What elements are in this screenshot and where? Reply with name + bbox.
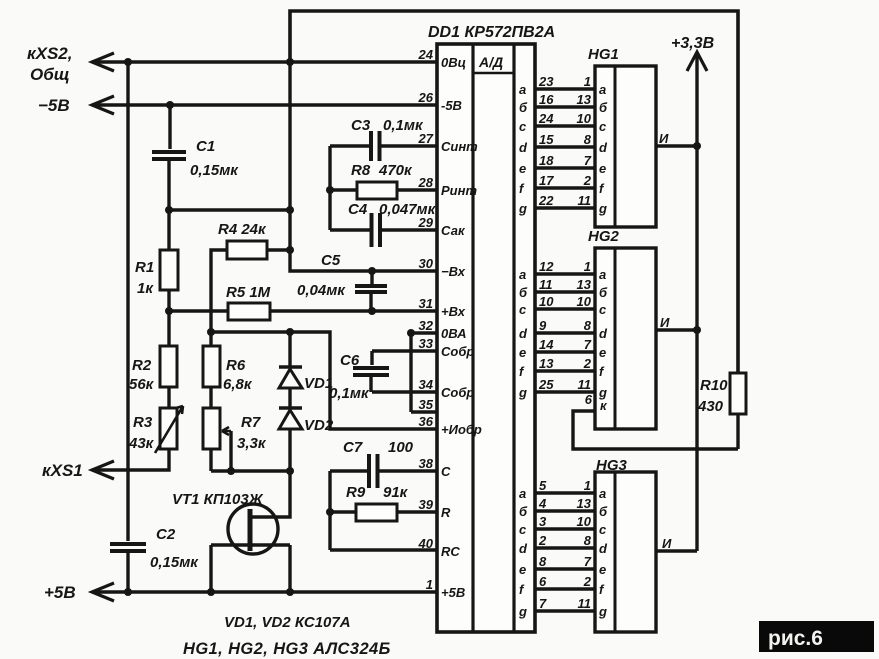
junction source right/+5В xyxy=(286,588,294,596)
svg-text:1: 1 xyxy=(584,74,591,89)
label рис.6 box xyxy=(759,621,874,652)
wire DD1 inner divider 1 xyxy=(471,44,474,632)
svg-text:9: 9 xyxy=(539,318,547,333)
svg-text:e: e xyxy=(519,161,526,176)
svg-text:Собр: Собр xyxy=(441,385,474,400)
wire R1 top lead xyxy=(167,210,170,250)
svg-text:НG2: НG2 xyxy=(588,228,620,245)
wire R line39 left xyxy=(330,510,356,513)
svg-text:d: d xyxy=(519,140,528,155)
svg-text:б: б xyxy=(599,504,608,519)
svg-text:VT1 КП103Ж: VT1 КП103Ж xyxy=(172,491,264,508)
svg-text:13: 13 xyxy=(577,277,592,292)
svg-text:31: 31 xyxy=(419,296,433,311)
svg-text:a: a xyxy=(599,486,606,501)
svg-text:2: 2 xyxy=(583,173,592,188)
wire segment c DD1 to HG3 xyxy=(535,527,595,530)
wire VT1 source rail xyxy=(211,543,290,546)
svg-text:g: g xyxy=(598,201,607,216)
svg-text:НG1: НG1 xyxy=(588,46,619,63)
svg-text:И: И xyxy=(659,131,669,146)
wire C2 to +5В line xyxy=(126,553,129,592)
resistor R4 xyxy=(227,241,267,259)
svg-text:e: e xyxy=(599,562,606,577)
svg-text:e: e xyxy=(599,345,606,360)
resistor R10 xyxy=(730,373,746,414)
wire R3 to кXS1 xyxy=(92,449,169,470)
svg-text:a: a xyxy=(599,267,606,282)
svg-text:g: g xyxy=(598,604,607,619)
svg-text:−Вх: −Вх xyxy=(441,264,466,279)
svg-text:6: 6 xyxy=(539,574,547,589)
svg-text:А/Д: А/Д xyxy=(478,54,503,70)
resistor R1 xyxy=(160,250,178,290)
wire R7 bottom lead xyxy=(209,449,212,471)
wire R6 to R7 xyxy=(209,387,212,408)
svg-text:8: 8 xyxy=(584,132,592,147)
diode VD2 xyxy=(279,408,302,429)
svg-text:5: 5 xyxy=(539,478,547,493)
svg-text:3: 3 xyxy=(539,514,547,529)
svg-text:18: 18 xyxy=(539,153,554,168)
wire segment c DD1 to HG2 xyxy=(535,307,595,310)
svg-text:0Вц: 0Вц xyxy=(441,55,466,70)
svg-text:g: g xyxy=(518,385,527,400)
wire ref node to R6 xyxy=(209,332,212,346)
svg-text:36: 36 xyxy=(419,414,434,429)
resistor R2 xyxy=(160,346,177,387)
wire segment a DD1 to HG2 xyxy=(535,272,595,275)
wire HG2 И to +3,3В rail xyxy=(656,328,697,331)
resistor R9 xyxy=(356,504,397,521)
wire segment d DD1 to HG1 xyxy=(535,145,595,148)
svg-text:c: c xyxy=(599,119,607,134)
junction stub/Общ vertical xyxy=(286,206,294,214)
wire Сак line29 left xyxy=(330,228,370,231)
wire C5 bottom lead xyxy=(369,294,372,311)
svg-text:a: a xyxy=(599,82,606,97)
svg-text:10: 10 xyxy=(577,294,592,309)
wire Синт line27 left xyxy=(330,144,369,147)
svg-text:DD1 КР572ПВ2А: DD1 КР572ПВ2А xyxy=(428,24,555,41)
svg-text:23: 23 xyxy=(538,74,554,89)
svg-text:С2: С2 xyxy=(156,526,176,543)
svg-text:26: 26 xyxy=(418,90,434,105)
junction R9 left xyxy=(326,508,334,516)
wire source rail left drop xyxy=(209,545,212,592)
svg-text:0ВА: 0ВА xyxy=(441,326,467,341)
svg-text:11: 11 xyxy=(578,377,592,392)
wire R1 bottom to node xyxy=(167,290,170,346)
svg-text:11: 11 xyxy=(578,193,592,208)
resistor R6 xyxy=(203,346,220,387)
wire segment c DD1 to HG1 xyxy=(535,124,595,127)
svg-text:Общ: Общ xyxy=(30,65,70,84)
svg-text:29: 29 xyxy=(418,215,434,230)
svg-text:g: g xyxy=(518,604,527,619)
wire Общ top frame to R10 top xyxy=(290,11,738,373)
node кXS1 arrow xyxy=(92,461,114,479)
wire VD1 to VD2 xyxy=(288,388,291,407)
svg-text:34: 34 xyxy=(419,377,434,392)
svg-text:4: 4 xyxy=(538,496,547,511)
svg-text:d: d xyxy=(519,326,528,341)
svg-text:−5В: −5В xyxy=(38,96,70,115)
wire R10 bottom lead xyxy=(736,414,739,449)
wire HG3 inner divider xyxy=(614,472,617,632)
capacitor C2 plates xyxy=(110,544,146,551)
diode VD1 xyxy=(279,367,302,388)
svg-text:430: 430 xyxy=(697,398,724,415)
svg-text:e: e xyxy=(599,161,606,176)
wire segment e DD1 to HG2 xyxy=(535,350,595,353)
svg-text:R6: R6 xyxy=(226,357,246,374)
wire segment f DD1 to HG3 xyxy=(535,587,595,590)
wire +5В line xyxy=(92,590,437,593)
svg-text:Сак: Сак xyxy=(441,223,466,238)
wire -5В line xyxy=(92,103,437,106)
wire R4 right lead xyxy=(267,248,290,251)
wire C5 top lead xyxy=(370,271,373,284)
wire R7 wiper to node line xyxy=(229,431,232,471)
wire HG1 inner divider xyxy=(614,66,617,227)
wire oscillator left vertical xyxy=(328,471,331,550)
node -5В arrow xyxy=(92,96,114,114)
svg-text:1: 1 xyxy=(584,259,591,274)
wire left Общ column down to C2 xyxy=(126,62,129,541)
svg-text:0,15мк: 0,15мк xyxy=(190,162,239,179)
wire segment e DD1 to HG3 xyxy=(535,567,595,570)
display HG2 body xyxy=(595,248,656,429)
wire кXS2 Общ line xyxy=(92,60,437,63)
svg-text:8: 8 xyxy=(539,554,547,569)
svg-text:40: 40 xyxy=(418,536,434,551)
trimmer R7 wiper arrow xyxy=(222,427,231,435)
wire С line38 left xyxy=(330,469,367,472)
op-amp U1 DD1 chip body xyxy=(437,44,535,632)
svg-text:б: б xyxy=(519,285,528,300)
wire Собр line34 xyxy=(372,390,437,393)
svg-text:б: б xyxy=(519,100,528,115)
svg-text:24: 24 xyxy=(538,111,554,126)
svg-text:g: g xyxy=(518,201,527,216)
svg-text:39: 39 xyxy=(419,497,434,512)
svg-text:13: 13 xyxy=(539,356,554,371)
svg-text:0,04мк: 0,04мк xyxy=(297,282,346,299)
svg-text:c: c xyxy=(599,522,607,537)
junction R4 right xyxy=(286,246,294,254)
wire segment a DD1 to HG3 xyxy=(535,491,595,494)
svg-text:32: 32 xyxy=(419,318,434,333)
svg-text:13: 13 xyxy=(577,92,592,107)
svg-text:30: 30 xyxy=(419,256,434,271)
wire gate node line xyxy=(211,469,290,472)
transistor VT1 body circle xyxy=(228,504,278,554)
svg-text:c: c xyxy=(519,119,527,134)
svg-text:10: 10 xyxy=(577,111,592,126)
svg-text:кXS2,: кXS2, xyxy=(27,44,72,63)
wire segment a DD1 to HG1 xyxy=(535,87,595,90)
svg-text:d: d xyxy=(599,326,608,341)
junction pin32 stub xyxy=(407,329,415,337)
wire R line39 right xyxy=(397,510,437,513)
junction C2/+5В xyxy=(124,588,132,596)
svg-text:c: c xyxy=(599,302,607,317)
svg-text:рис.6: рис.6 xyxy=(768,627,823,650)
resistor R3 trimmer xyxy=(160,408,177,449)
wire VD2 to node line xyxy=(288,429,291,471)
svg-text:6,8к: 6,8к xyxy=(223,376,253,393)
wire pin32 to pin35 xyxy=(409,333,412,412)
node R1/R2/R5 xyxy=(165,307,173,315)
svg-text:27: 27 xyxy=(418,131,434,146)
wire HG2 inner divider xyxy=(614,248,617,429)
junction VD2/VT1 node xyxy=(286,467,294,475)
junction HG1 И/rail xyxy=(693,142,701,150)
wire Синт line27 right xyxy=(381,144,437,147)
wire pin35 stub xyxy=(411,410,437,413)
wire C6 bottom lead xyxy=(369,377,372,392)
svg-text:VD2: VD2 xyxy=(304,417,334,434)
svg-text:56к: 56к xyxy=(129,376,155,393)
svg-text:2: 2 xyxy=(583,574,592,589)
display HG3 body xyxy=(595,472,656,632)
svg-text:С7: С7 xyxy=(343,439,363,456)
wire HG3 И to +3,3В rail xyxy=(656,549,697,552)
svg-text:3,3к: 3,3к xyxy=(237,435,267,452)
svg-text:8: 8 xyxy=(584,533,592,548)
svg-text:R2: R2 xyxy=(132,357,152,374)
svg-text:11: 11 xyxy=(578,596,592,611)
svg-text:35: 35 xyxy=(419,397,434,412)
wire R5 left lead xyxy=(169,309,228,312)
svg-text:28: 28 xyxy=(418,175,434,190)
svg-text:16: 16 xyxy=(539,92,554,107)
svg-text:2: 2 xyxy=(583,356,592,371)
wire -5В to C1 xyxy=(168,105,171,149)
junction VD1 top xyxy=(286,328,294,336)
junction source left/+5В xyxy=(207,588,215,596)
svg-text:d: d xyxy=(519,541,528,556)
junction wiper/node line xyxy=(227,467,235,475)
svg-text:R8: R8 xyxy=(351,162,371,179)
svg-text:0,15мк: 0,15мк xyxy=(150,554,199,571)
svg-text:1: 1 xyxy=(426,577,433,592)
svg-text:HG1, HG2, HG3 АЛС324Б: HG1, HG2, HG3 АЛС324Б xyxy=(183,640,391,658)
transistor VT1 channel bar xyxy=(248,509,253,551)
capacitor C7 plates xyxy=(369,454,378,488)
svg-text:14: 14 xyxy=(539,337,554,352)
svg-text:1к: 1к xyxy=(137,280,154,297)
wire DD1 inner divider 2 xyxy=(512,44,515,632)
svg-text:15: 15 xyxy=(539,132,554,147)
svg-text:7: 7 xyxy=(584,337,592,352)
svg-text:R1: R1 xyxy=(135,259,154,276)
wire ref line to VD1 xyxy=(288,332,291,366)
svg-text:0,1мк: 0,1мк xyxy=(329,385,370,402)
svg-text:13: 13 xyxy=(577,496,592,511)
svg-text:e: e xyxy=(519,345,526,360)
wire HG1 И to +3,3В rail xyxy=(656,144,697,147)
junction C5 top xyxy=(368,267,376,275)
node +3,3В arrow xyxy=(687,52,707,71)
junction кXS2/Общ vertical xyxy=(286,58,294,66)
svg-text:R3: R3 xyxy=(133,414,153,431)
svg-text:С: С xyxy=(441,464,451,479)
wire Общ stub to vertical xyxy=(169,208,290,211)
wire R5 to +Вх pin31 xyxy=(270,309,437,312)
wire reference node to pin36 xyxy=(211,332,437,429)
resistor R5 xyxy=(228,303,270,320)
svg-text:12: 12 xyxy=(539,259,554,274)
svg-text:6: 6 xyxy=(585,392,593,407)
svg-text:e: e xyxy=(519,562,526,577)
svg-text:43к: 43к xyxy=(128,435,155,452)
wire VT1 drain lead xyxy=(252,471,290,517)
svg-text:+Вх: +Вх xyxy=(441,304,466,319)
svg-text:10: 10 xyxy=(577,514,592,529)
svg-text:1: 1 xyxy=(584,478,591,493)
wire R4 left lead xyxy=(211,250,227,332)
svg-text:7: 7 xyxy=(539,596,547,611)
resistor R7 trimmer xyxy=(203,408,220,449)
svg-text:38: 38 xyxy=(419,456,434,471)
capacitor C1 plates xyxy=(152,152,186,159)
capacitor C5 plates xyxy=(355,286,387,292)
wire Ринт line28 right xyxy=(397,188,437,191)
junction -5В/C1 xyxy=(166,101,174,109)
svg-text:б: б xyxy=(599,100,608,115)
svg-text:17: 17 xyxy=(539,173,554,188)
svg-text:-5В: -5В xyxy=(441,98,462,113)
wire segment d DD1 to HG2 xyxy=(535,331,595,334)
wire RC line40 xyxy=(330,548,437,551)
svg-text:11: 11 xyxy=(539,277,553,292)
junction R8 left xyxy=(326,186,334,194)
svg-text:+5В: +5В xyxy=(44,583,76,602)
svg-text:С6: С6 xyxy=(340,352,360,369)
wire segment б DD1 to HG3 xyxy=(535,509,595,512)
junction HG2 И/rail xyxy=(693,326,701,334)
svg-text:И: И xyxy=(660,315,670,330)
wire segment e DD1 to HG1 xyxy=(535,166,595,169)
wire А/Д underline xyxy=(473,72,514,75)
resistor R8 xyxy=(357,182,397,199)
svg-text:б: б xyxy=(599,285,608,300)
wire segment б DD1 to HG2 xyxy=(535,290,595,293)
svg-text:VD1, VD2 КС107А: VD1, VD2 КС107А xyxy=(224,614,351,631)
node +5В arrow xyxy=(92,583,114,601)
svg-text:С4: С4 xyxy=(348,201,368,218)
svg-text:c: c xyxy=(519,522,527,537)
wire HG2 К pin to R10 xyxy=(573,411,738,449)
wire R2 to R3 xyxy=(167,387,170,408)
wire segment d DD1 to HG3 xyxy=(535,546,595,549)
node R4/R6/ref xyxy=(207,328,215,336)
svg-text:+Иобр: +Иобр xyxy=(441,422,482,437)
wire Собр line33 xyxy=(372,349,437,352)
wire segment g DD1 to HG2 xyxy=(535,390,595,393)
wire C1 to Общ stub xyxy=(167,161,170,210)
svg-text:И: И xyxy=(662,536,672,551)
svg-text:8: 8 xyxy=(584,318,592,333)
svg-text:24: 24 xyxy=(418,47,434,62)
junction C1/R1/stub xyxy=(165,206,173,214)
wire С line38 right xyxy=(379,469,437,472)
wire source rail right drop xyxy=(288,545,291,592)
wire segment g DD1 to HG3 xyxy=(535,609,595,612)
svg-text:Синт: Синт xyxy=(441,139,478,154)
svg-text:+3,3В: +3,3В xyxy=(671,35,714,52)
svg-text:d: d xyxy=(599,140,608,155)
svg-text:+5В: +5В xyxy=(441,585,465,600)
svg-text:d: d xyxy=(599,541,608,556)
wire integrator left vertical xyxy=(328,146,331,230)
svg-text:Ринт: Ринт xyxy=(441,183,477,198)
svg-text:25: 25 xyxy=(538,377,554,392)
svg-text:R9: R9 xyxy=(346,484,366,501)
wire segment б DD1 to HG1 xyxy=(535,105,595,108)
wire C6 top lead xyxy=(370,351,373,365)
trimmer R3 arrow xyxy=(155,406,183,453)
wire 0ВА pin32 stub xyxy=(411,331,437,334)
svg-text:R7: R7 xyxy=(241,414,261,431)
junction кXS2/left column xyxy=(124,58,132,66)
svg-text:c: c xyxy=(519,302,527,317)
wire Ринт line28 left xyxy=(330,188,357,191)
svg-text:100: 100 xyxy=(388,439,414,456)
capacitor C4 plates xyxy=(372,213,381,247)
svg-text:С5: С5 xyxy=(321,252,341,269)
svg-text:R: R xyxy=(441,505,451,520)
svg-text:Собр: Собр xyxy=(441,344,474,359)
node кXS2 arrow xyxy=(92,53,114,71)
wire +3,3В rail xyxy=(695,55,698,551)
svg-text:б: б xyxy=(519,504,528,519)
wire segment f DD1 to HG2 xyxy=(535,369,595,372)
svg-text:НG3: НG3 xyxy=(596,457,628,474)
svg-text:7: 7 xyxy=(584,554,592,569)
svg-text:кXS1: кXS1 xyxy=(42,461,83,480)
svg-text:470к: 470к xyxy=(378,162,413,179)
wire Общ vertical to -Вх pin30 xyxy=(290,62,437,271)
svg-text:2: 2 xyxy=(538,533,547,548)
svg-text:R10: R10 xyxy=(700,377,728,394)
display HG1 body xyxy=(595,66,656,227)
svg-text:a: a xyxy=(519,267,526,282)
svg-text:a: a xyxy=(519,82,526,97)
svg-text:R4 24к: R4 24к xyxy=(218,221,267,238)
capacitor C6 plates xyxy=(353,368,389,375)
svg-text:22: 22 xyxy=(538,193,554,208)
wire Сак line29 right xyxy=(381,228,437,231)
svg-text:R5 1М: R5 1М xyxy=(226,284,271,301)
svg-text:С3: С3 xyxy=(351,117,371,134)
junction C5 bottom xyxy=(368,307,376,315)
svg-text:10: 10 xyxy=(539,294,554,309)
svg-text:33: 33 xyxy=(419,336,434,351)
svg-text:7: 7 xyxy=(584,153,592,168)
capacitor C3 plates xyxy=(371,131,380,161)
svg-text:91к: 91к xyxy=(383,484,409,501)
wire segment f DD1 to HG1 xyxy=(535,186,595,189)
svg-text:С1: С1 xyxy=(196,138,215,155)
svg-text:RС: RС xyxy=(441,544,460,559)
svg-text:a: a xyxy=(519,486,526,501)
wire segment g DD1 to HG1 xyxy=(535,206,595,209)
